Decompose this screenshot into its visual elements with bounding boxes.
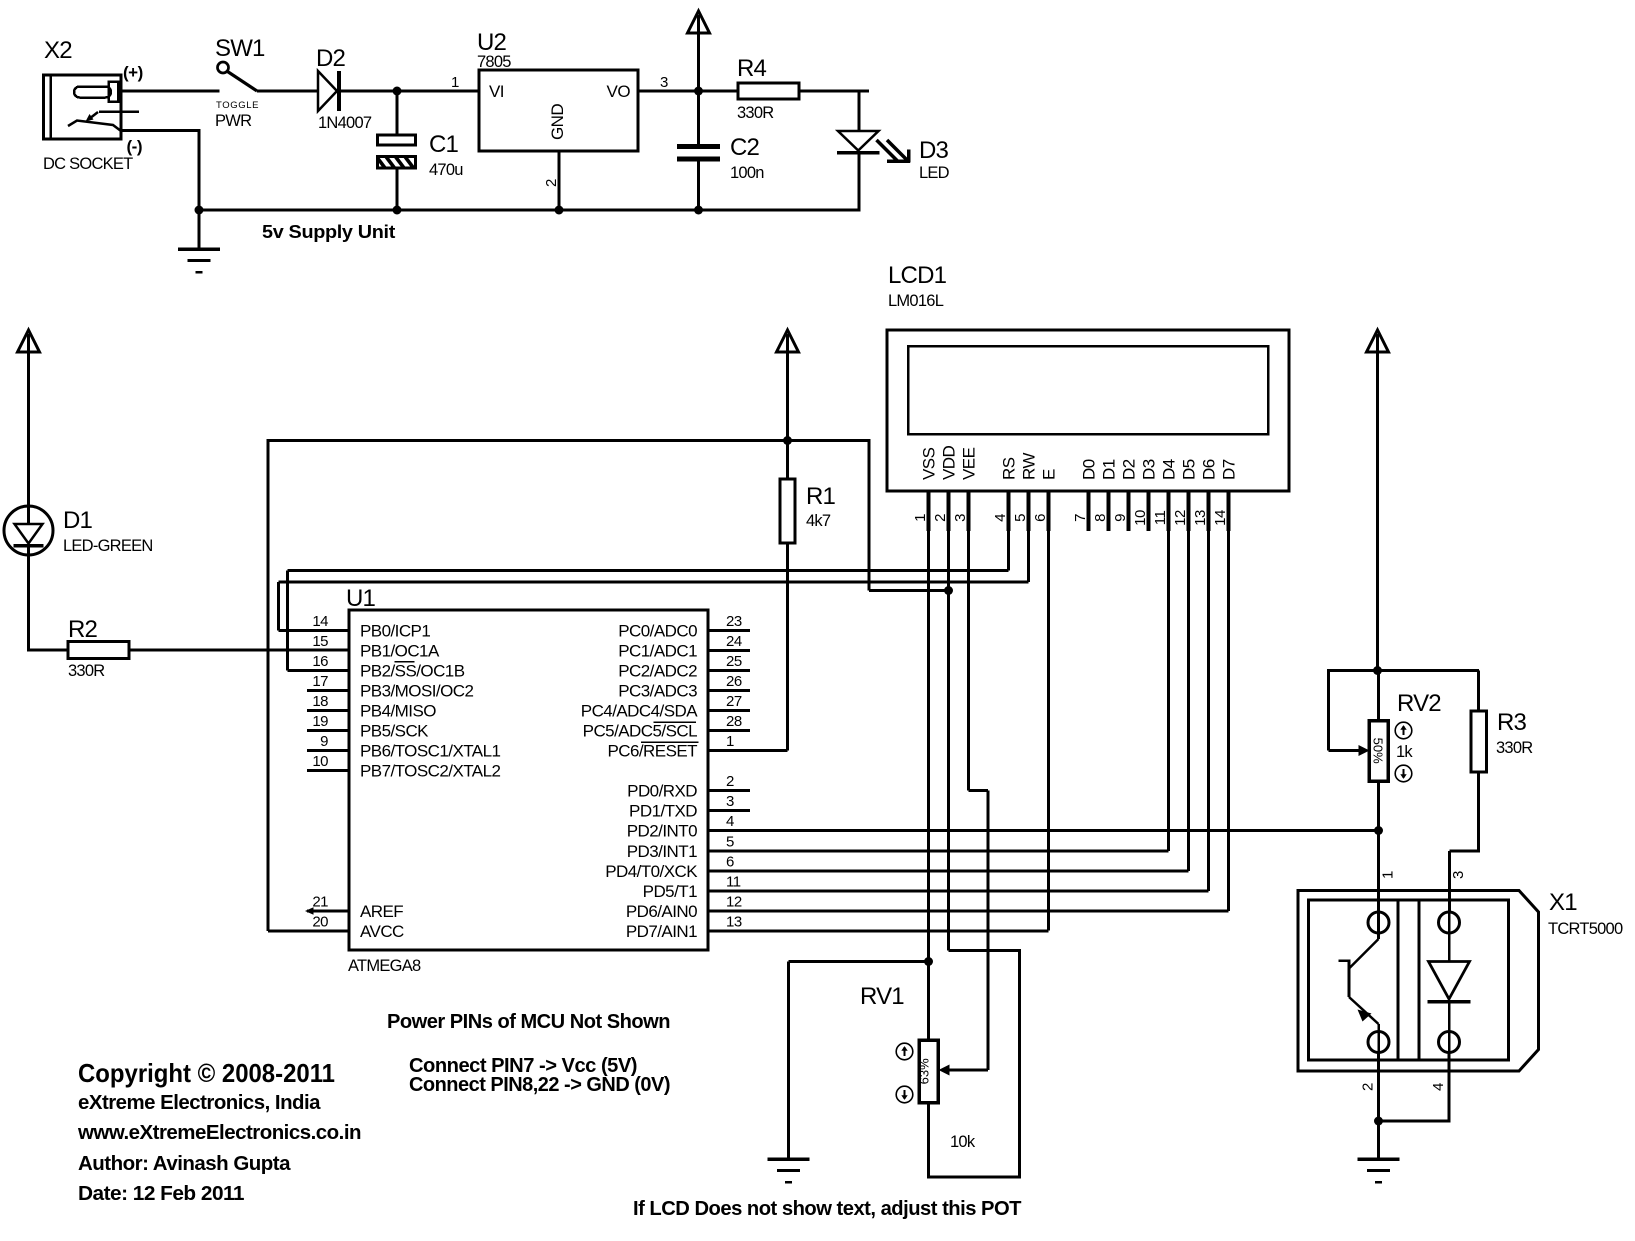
- svg-text:D0: D0: [1080, 459, 1099, 480]
- svg-text:13: 13: [726, 914, 742, 931]
- U1 pin 9 lead: [307, 749, 349, 752]
- LCD pin 4 RS stem: [1007, 491, 1011, 531]
- U1 pin 6 wire PD4/T0/XCK: [708, 870, 1189, 873]
- wire VEE down: [967, 531, 970, 791]
- svg-text:AVCC: AVCC: [360, 922, 404, 941]
- svg-text:C1: C1: [429, 131, 459, 158]
- wire RV1 bottom loop: [927, 1103, 930, 1179]
- svg-text:(-): (-): [127, 137, 142, 156]
- svg-text:RW: RW: [1020, 453, 1039, 480]
- junction at C1 top: [393, 87, 402, 96]
- svg-text:PD6/AIN0: PD6/AIN0: [626, 902, 697, 921]
- svg-text:eXtreme Electronics, India: eXtreme Electronics, India: [78, 1092, 321, 1114]
- svg-text:17: 17: [312, 673, 328, 690]
- svg-text:D2: D2: [316, 45, 346, 72]
- wire power to RV2: [1376, 352, 1379, 671]
- sensor X1 outline: [1298, 891, 1539, 1072]
- RV2 wiper arrow: [1359, 745, 1370, 756]
- svg-text:20: 20: [312, 914, 328, 931]
- svg-text:D2: D2: [1120, 459, 1139, 480]
- wire RV2 left loop: [1327, 669, 1330, 751]
- switch SW1 blade: [228, 72, 258, 92]
- junction rail at ground stem: [195, 206, 204, 215]
- svg-text:TOGGLE: TOGGLE: [216, 100, 259, 111]
- svg-text:PC0/ADC0: PC0/ADC0: [618, 622, 697, 641]
- capacitor C2 plates: [677, 144, 720, 149]
- overline SCL: [654, 721, 697, 723]
- wire RW to PB0: [279, 581, 1029, 584]
- LCD pin 14 D7 stem: [1227, 491, 1231, 531]
- svg-text:PC1/ADC1: PC1/ADC1: [618, 642, 697, 661]
- ground symbol supply: [178, 247, 220, 251]
- resistor R1 body: [780, 479, 795, 543]
- svg-text:ATMEGA8: ATMEGA8: [348, 957, 421, 975]
- svg-text:1: 1: [726, 733, 734, 750]
- RV1 wiper arrow: [947, 1069, 988, 1072]
- svg-text:330R: 330R: [68, 662, 105, 680]
- wire R3 top: [1477, 671, 1480, 712]
- wire R1 top: [786, 441, 789, 480]
- wire RV2 stem top: [1377, 671, 1380, 721]
- wire R1 bottom to RESET: [786, 543, 789, 751]
- svg-text:4: 4: [726, 813, 734, 830]
- led D1 cathode bar: [14, 544, 44, 548]
- wire C1 bottom: [396, 168, 399, 210]
- svg-text:PB1/OC1A: PB1/OC1A: [360, 642, 440, 661]
- wire R3 bottom jog: [1477, 772, 1480, 851]
- svg-text:28: 28: [726, 713, 742, 730]
- svg-text:Author: Avinash Gupta: Author: Avinash Gupta: [78, 1153, 291, 1175]
- U1 pin 11 wire PD5/T1: [708, 890, 1209, 893]
- U1 pin 13 wire PD7/AIN1: [708, 930, 1049, 933]
- svg-text:15: 15: [312, 633, 328, 650]
- X1 pin 2 lead: [1377, 1053, 1380, 1122]
- power flag above RV2: [1367, 330, 1389, 352]
- svg-text:LCD1: LCD1: [888, 262, 947, 289]
- U1 pin 16 lead: [288, 669, 350, 672]
- LCD pin 13 D6 stem: [1207, 491, 1211, 531]
- wire X2 plus to SW1: [121, 90, 220, 93]
- svg-text:E: E: [1040, 469, 1059, 480]
- wire power flag to R1 rail: [786, 352, 789, 441]
- svg-text:RV2: RV2: [1397, 690, 1441, 717]
- svg-text:(+): (+): [123, 63, 143, 82]
- svg-text:VO: VO: [607, 82, 631, 101]
- resistor R4 body: [738, 83, 799, 99]
- RV1 down adjust icon: [896, 1086, 913, 1103]
- wire X2 minus: [121, 129, 199, 132]
- svg-text:VDD: VDD: [940, 445, 959, 480]
- svg-text:4: 4: [1430, 1083, 1447, 1091]
- svg-text:14: 14: [312, 613, 328, 630]
- svg-text:PB4/MISO: PB4/MISO: [360, 702, 436, 721]
- svg-text:PD4/T0/XCK: PD4/T0/XCK: [605, 862, 698, 881]
- wire D1 cathode to R2: [27, 545, 30, 652]
- svg-text:11: 11: [1152, 511, 1169, 526]
- svg-text:X2: X2: [44, 37, 72, 64]
- svg-text:LM016L: LM016L: [888, 292, 944, 310]
- LCD pin 10 D3 stem: [1147, 491, 1151, 531]
- U1 pin 26 lead: [708, 689, 750, 692]
- svg-text:AREF: AREF: [360, 902, 403, 921]
- wire C1 top: [396, 91, 399, 135]
- RV1 up adjust icon: [896, 1043, 913, 1060]
- svg-text:2: 2: [1360, 1083, 1377, 1091]
- U1 pin 24 lead: [708, 649, 750, 652]
- wire power to D1: [27, 352, 30, 506]
- svg-text:14: 14: [1212, 510, 1229, 526]
- svg-text:2: 2: [932, 514, 949, 522]
- svg-text:PC3/ADC3: PC3/ADC3: [618, 682, 697, 701]
- power flag above D1: [18, 330, 40, 352]
- svg-text:DC SOCKET: DC SOCKET: [43, 155, 133, 173]
- svg-text:9: 9: [1112, 514, 1129, 522]
- svg-text:12: 12: [726, 894, 742, 911]
- switch SW1 pole circle: [218, 62, 229, 73]
- svg-text:3: 3: [726, 793, 734, 810]
- wire RW down: [1027, 531, 1030, 582]
- led D3 emission arrows: [877, 140, 899, 162]
- svg-text:R3: R3: [1497, 709, 1527, 736]
- X1 pad bottom right: [1439, 1032, 1460, 1053]
- wire VSS branch to ground: [789, 960, 929, 963]
- mcu U1 ATMEGA8 body: [349, 610, 708, 950]
- svg-text:PB0/ICP1: PB0/ICP1: [360, 622, 430, 641]
- X1 pad top left: [1368, 912, 1389, 933]
- wire C2 bottom: [697, 162, 700, 211]
- U1 pin 4 wire PD2/INT0: [708, 829, 1379, 832]
- svg-text:D1: D1: [1100, 459, 1119, 480]
- capacitor C1 polarized bottom plate: [378, 157, 416, 169]
- svg-text:2: 2: [543, 179, 560, 187]
- LCD pin 7 D0 stem: [1087, 491, 1091, 531]
- wire rail down to AVCC: [267, 439, 270, 931]
- svg-text:5: 5: [726, 834, 734, 851]
- LCD pin 9 D2 stem: [1127, 491, 1131, 531]
- svg-text:1k: 1k: [1396, 743, 1413, 761]
- wire to supply ground: [198, 210, 201, 249]
- svg-text:Connect PIN8,22 -> GND (0V): Connect PIN8,22 -> GND (0V): [409, 1074, 670, 1096]
- svg-text:63%: 63%: [917, 1058, 932, 1084]
- wire D5 down to PD4: [1187, 531, 1190, 871]
- svg-text:GND: GND: [548, 104, 567, 140]
- X1 phototransistor collector: [1349, 939, 1379, 969]
- U1 pin 5 wire PD3/INT1: [708, 850, 1169, 853]
- svg-text:PD3/INT1: PD3/INT1: [627, 842, 697, 861]
- wire RS down: [1007, 531, 1010, 571]
- svg-text:7: 7: [1072, 514, 1089, 522]
- svg-text:27: 27: [726, 693, 742, 710]
- U1 AREF dangling arrow: [305, 907, 314, 914]
- wire rail down to VDD: [868, 439, 871, 591]
- svg-text:PD2/INT0: PD2/INT0: [627, 822, 697, 841]
- wire VEE to wiper: [987, 791, 990, 1071]
- wire R2 to U1 PB1: [129, 649, 349, 652]
- X1 photodiode lead lower: [1448, 1002, 1451, 1053]
- svg-text:PB7/TOSC2/XTAL2: PB7/TOSC2/XTAL2: [360, 762, 501, 781]
- svg-text:PB3/MOSI/OC2: PB3/MOSI/OC2: [360, 682, 473, 701]
- junction rail at C1: [393, 206, 402, 215]
- svg-text:PC6/RESET: PC6/RESET: [607, 742, 697, 761]
- svg-text:1: 1: [451, 74, 459, 91]
- wire D1 anode stub: [27, 506, 30, 524]
- svg-text:10: 10: [312, 753, 328, 770]
- svg-text:4: 4: [992, 514, 1009, 522]
- U1 pin 28 lead: [708, 729, 750, 732]
- LCD pin 6 E stem: [1047, 491, 1051, 531]
- svg-text:11: 11: [726, 874, 741, 891]
- svg-text:13: 13: [1192, 510, 1209, 526]
- X1 pin 4 lead: [1448, 1053, 1451, 1123]
- power flag above R1: [777, 330, 799, 352]
- ground rail of supply: [199, 209, 859, 212]
- svg-text:X1: X1: [1549, 889, 1577, 916]
- U1 pin 25 lead: [708, 669, 750, 672]
- wire C2 top: [697, 91, 700, 144]
- svg-text:D1: D1: [63, 507, 93, 534]
- svg-text:Copyright © 2008-2011: Copyright © 2008-2011: [78, 1058, 335, 1088]
- svg-text:PB5/SCK: PB5/SCK: [360, 722, 429, 741]
- svg-text:PD7/AIN1: PD7/AIN1: [626, 922, 697, 941]
- U1 pin 12 wire PD6/AIN0: [708, 910, 1229, 913]
- svg-text:PWR: PWR: [215, 112, 252, 130]
- overline RESET: [641, 741, 699, 743]
- svg-text:5: 5: [1012, 514, 1029, 522]
- svg-text:12: 12: [1172, 510, 1189, 526]
- svg-text:If LCD Does not show text, adj: If LCD Does not show text, adjust this P…: [633, 1198, 1021, 1220]
- wire D3 to ground rail: [858, 153, 861, 212]
- LCD1 screen area: [908, 346, 1268, 434]
- svg-text:10: 10: [1132, 510, 1149, 526]
- svg-text:19: 19: [312, 713, 328, 730]
- junction X1 ground node: [1374, 1117, 1383, 1126]
- led D3 cathode bar: [837, 151, 880, 155]
- svg-text:D3: D3: [919, 137, 949, 164]
- svg-text:18: 18: [312, 693, 328, 710]
- wire D2 to U2 VI: [341, 90, 479, 93]
- junction VSS ground branch: [924, 957, 933, 966]
- svg-text:RV1: RV1: [860, 983, 904, 1010]
- sensor X1 divider: [1397, 900, 1400, 1060]
- junction RV2 top: [1373, 666, 1382, 675]
- power rail to MCU: [268, 439, 869, 442]
- svg-text:100n: 100n: [730, 164, 764, 182]
- junction at C2 top: [694, 87, 703, 96]
- svg-text:330R: 330R: [737, 104, 774, 122]
- X1 pad top right: [1439, 912, 1460, 933]
- LCD pin 2 VDD stem: [947, 491, 951, 531]
- svg-text:23: 23: [726, 613, 742, 630]
- U1 pin 2 lead: [708, 789, 750, 792]
- U1 pin 17 lead: [307, 689, 349, 692]
- led D1 circle: [4, 506, 53, 555]
- svg-text:SW1: SW1: [215, 35, 265, 62]
- svg-text:RS: RS: [1000, 457, 1019, 480]
- wire D7 down to PD6: [1227, 531, 1230, 911]
- wire RS to PB2: [288, 569, 1009, 572]
- svg-text:470u: 470u: [429, 161, 463, 179]
- svg-text:50%: 50%: [1371, 738, 1386, 764]
- svg-text:R1: R1: [806, 483, 836, 510]
- svg-text:1: 1: [912, 514, 929, 522]
- wire U2 VO to rail: [638, 90, 869, 93]
- wire X1 to ground: [1377, 1121, 1380, 1159]
- wire sensor node to X1 pin1: [1377, 831, 1380, 940]
- X1 photodiode triangle: [1429, 962, 1470, 1000]
- svg-text:330R: 330R: [1496, 739, 1533, 757]
- svg-text:www.eXtremeElectronics.co.in: www.eXtremeElectronics.co.in: [77, 1122, 361, 1144]
- led D3 triangle: [838, 131, 879, 151]
- X1 pad bottom left: [1368, 1032, 1389, 1053]
- U1 pin 19 lead: [307, 729, 349, 732]
- resistor R3 body: [1471, 711, 1487, 772]
- svg-text:3: 3: [1450, 871, 1467, 879]
- RV2 down adjust icon: [1395, 765, 1412, 782]
- wire D4 down to PD3: [1167, 531, 1170, 851]
- X1 photodiode cathode bar: [1428, 1000, 1471, 1004]
- ground symbol near RV1: [768, 1157, 810, 1161]
- wire SW1 to D2: [257, 90, 318, 93]
- svg-text:26: 26: [726, 673, 742, 690]
- wire D6 down to PD5: [1207, 531, 1210, 891]
- LCD pin 8 D1 stem: [1107, 491, 1111, 531]
- pot RV2 body: [1369, 721, 1388, 782]
- svg-text:9: 9: [320, 733, 328, 750]
- svg-text:PC5/ADC5/SCL: PC5/ADC5/SCL: [583, 722, 697, 741]
- junction at VDD line: [944, 586, 953, 595]
- U1 pin 27 lead: [708, 709, 750, 712]
- wire RV2 bottom: [1377, 781, 1380, 831]
- svg-text:8: 8: [1092, 514, 1109, 522]
- svg-text:U2: U2: [477, 29, 507, 56]
- svg-text:3: 3: [660, 74, 668, 91]
- svg-text:VI: VI: [489, 82, 504, 101]
- svg-text:25: 25: [726, 653, 742, 670]
- svg-text:D4: D4: [1160, 459, 1179, 480]
- svg-text:6: 6: [726, 854, 734, 871]
- wire RV2 top rail: [1329, 669, 1480, 672]
- U1 pin 10 lead: [307, 769, 349, 772]
- svg-text:1N4007: 1N4007: [318, 114, 372, 132]
- regulator U2 7805 body: [479, 70, 638, 151]
- svg-text:C2: C2: [730, 134, 760, 161]
- LCD pin 12 D5 stem: [1187, 491, 1191, 531]
- display LCD1 body: [887, 330, 1289, 491]
- svg-text:PC4/ADC4/SDA: PC4/ADC4/SDA: [581, 702, 698, 721]
- svg-text:R4: R4: [737, 55, 767, 82]
- svg-text:U1: U1: [346, 585, 376, 612]
- svg-text:PB2/SS/OC1B: PB2/SS/OC1B: [360, 662, 465, 681]
- LCD pin 3 VEE stem: [967, 491, 971, 531]
- svg-text:R2: R2: [68, 616, 98, 643]
- svg-text:LED: LED: [919, 164, 950, 182]
- svg-text:PB6/TOSC1/XTAL1: PB6/TOSC1/XTAL1: [360, 742, 501, 761]
- X2 insertion arrow: [99, 110, 139, 113]
- LCD pin 5 RW stem: [1027, 491, 1031, 531]
- U1 pin 3 lead: [708, 809, 750, 812]
- ground symbol X1: [1358, 1157, 1400, 1161]
- LCD pin 1 VSS stem: [927, 491, 931, 531]
- wire E down to PD7: [1047, 531, 1050, 931]
- junction rail at U2 pin2: [555, 206, 564, 215]
- svg-text:PC2/ADC2: PC2/ADC2: [618, 662, 697, 681]
- X2 switch contact: [68, 121, 121, 132]
- svg-text:3: 3: [952, 514, 969, 522]
- X1 phototransistor emitter: [1349, 997, 1379, 1024]
- svg-text:D3: D3: [1140, 459, 1159, 480]
- svg-text:PD0/RXD: PD0/RXD: [627, 782, 697, 801]
- connector X2 DC socket body: [44, 75, 122, 139]
- svg-text:Power PINs of MCU Not Shown: Power PINs of MCU Not Shown: [387, 1011, 670, 1033]
- resistor R2 body: [68, 642, 129, 659]
- capacitor C1 470u top plate: [378, 135, 416, 145]
- junction rail at C2: [694, 206, 703, 215]
- svg-text:LED-GREEN: LED-GREEN: [63, 537, 153, 555]
- U1 pin 21 lead: [307, 910, 349, 913]
- wire VDD down: [947, 531, 950, 951]
- svg-text:D6: D6: [1200, 459, 1219, 480]
- wire power flag to rail: [697, 33, 700, 91]
- svg-text:2: 2: [726, 773, 734, 790]
- X2 center pin: [74, 87, 111, 98]
- X1 photodiode lead: [1448, 912, 1451, 961]
- svg-text:PD5/T1: PD5/T1: [643, 882, 697, 901]
- pot RV1 body: [919, 1040, 938, 1103]
- led D1 triangle: [15, 524, 43, 544]
- svg-text:24: 24: [726, 633, 742, 650]
- power flag 5V above C2: [688, 11, 710, 33]
- svg-text:7805: 7805: [477, 53, 511, 71]
- svg-text:VEE: VEE: [960, 447, 979, 480]
- U1 pin 23 lead: [708, 629, 750, 632]
- LCD pin 11 D4 stem: [1167, 491, 1171, 531]
- junction at R1 top: [783, 436, 792, 445]
- X1 phototransistor base bar: [1348, 960, 1351, 998]
- svg-text:D7: D7: [1220, 459, 1239, 480]
- wire RV1 top: [927, 962, 930, 1041]
- svg-text:16: 16: [312, 653, 328, 670]
- U2 pin 2 lead: [558, 151, 561, 210]
- wire R4 to D3: [799, 90, 859, 93]
- svg-text:VSS: VSS: [920, 447, 939, 480]
- svg-text:TCRT5000: TCRT5000: [1548, 920, 1623, 938]
- sensor X1 inner box: [1309, 900, 1509, 1060]
- svg-text:1: 1: [1380, 871, 1397, 879]
- U1 pin 18 lead: [307, 709, 349, 712]
- svg-text:4k7: 4k7: [806, 512, 831, 530]
- RV2 up adjust icon: [1395, 722, 1412, 739]
- svg-text:PD1/TXD: PD1/TXD: [629, 802, 697, 821]
- svg-text:Date: 12 Feb 2011: Date: 12 Feb 2011: [78, 1183, 244, 1205]
- svg-text:D5: D5: [1180, 459, 1199, 480]
- svg-text:6: 6: [1032, 514, 1049, 522]
- svg-text:21: 21: [312, 894, 328, 911]
- U1 pin 14 lead: [279, 629, 350, 632]
- svg-text:10k: 10k: [950, 1133, 976, 1151]
- svg-text:5v Supply Unit: 5v Supply Unit: [262, 222, 395, 242]
- diode D2 1N4007: [318, 71, 337, 111]
- junction PD2 sensor node: [1374, 826, 1383, 835]
- wire VSS down: [927, 531, 930, 962]
